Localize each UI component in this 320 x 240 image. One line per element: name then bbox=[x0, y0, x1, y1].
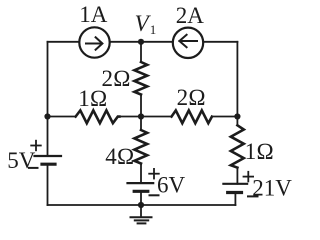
wire right rail upper bbox=[236, 42, 238, 117]
svg-text:4Ω: 4Ω bbox=[105, 144, 134, 169]
wire middle segment to center node bbox=[119, 116, 141, 118]
battery 21V source plates bbox=[223, 184, 247, 193]
svg-text:5V: 5V bbox=[7, 148, 36, 173]
resistor 4ohm vertical bbox=[134, 130, 147, 164]
svg-text:1: 1 bbox=[150, 22, 157, 37]
resistor 1ohm vertical right bbox=[231, 125, 244, 167]
wire 2ohm vertical lower lead bbox=[140, 95, 142, 117]
wire middle segment from center node bbox=[141, 116, 172, 118]
resistor 1ohm horizontal left bbox=[76, 110, 120, 123]
wire 5V battery lower lead bbox=[47, 164, 49, 205]
node V1 junction dot bbox=[138, 39, 144, 45]
svg-text:6V: 6V bbox=[157, 173, 186, 198]
wire bottom rail bbox=[48, 204, 236, 206]
wire 6V battery lower lead bbox=[140, 191, 142, 205]
svg-text:1Ω: 1Ω bbox=[78, 86, 107, 111]
wire 21V battery lower lead bbox=[234, 193, 236, 206]
svg-text:2Ω: 2Ω bbox=[177, 85, 206, 110]
battery 6V source plates bbox=[128, 183, 154, 191]
svg-text:1Ω: 1Ω bbox=[245, 139, 274, 164]
wire 1ohm to 21V battery bbox=[236, 168, 238, 184]
wire middle-right segment bbox=[212, 116, 238, 118]
wire 2ohm vertical upper lead bbox=[140, 42, 142, 62]
node dot bottom-center bbox=[138, 202, 144, 208]
wire middle-left segment bbox=[48, 116, 76, 118]
wire 5V battery upper lead bbox=[47, 117, 49, 157]
plus sign of 21V source bbox=[244, 172, 254, 182]
minus sign of 5V source bbox=[29, 167, 38, 169]
minus sign of 6V source bbox=[150, 194, 159, 196]
wire top-right segment bbox=[203, 41, 237, 43]
minus sign of 21V source bbox=[248, 195, 258, 197]
svg-text:2A: 2A bbox=[176, 3, 205, 28]
current source I2 2A bbox=[173, 28, 203, 58]
svg-text:1A: 1A bbox=[79, 2, 108, 27]
node dot center-middle bbox=[138, 113, 144, 119]
wire top-left segment bbox=[48, 41, 80, 43]
node label V1 bbox=[135, 11, 157, 37]
plus sign of 5V source bbox=[31, 141, 41, 151]
wire 4ohm upper lead bbox=[140, 117, 142, 131]
plus sign of 6V source bbox=[149, 169, 159, 179]
wire left rail upper bbox=[47, 42, 49, 117]
wire between 1A source and node V1 bbox=[110, 41, 173, 43]
battery V1 5V source plates bbox=[35, 156, 62, 164]
node dot right-middle bbox=[234, 113, 240, 119]
wire 1ohm right upper lead bbox=[236, 117, 238, 126]
current source I1 1A bbox=[79, 27, 109, 57]
wire 4ohm to 6V battery bbox=[140, 164, 142, 184]
resistor 2ohm vertical bbox=[134, 62, 147, 95]
node dot left-middle bbox=[44, 113, 50, 119]
svg-text:21V: 21V bbox=[252, 175, 292, 200]
ground bbox=[131, 205, 152, 223]
resistor 2ohm horizontal right bbox=[172, 110, 212, 123]
